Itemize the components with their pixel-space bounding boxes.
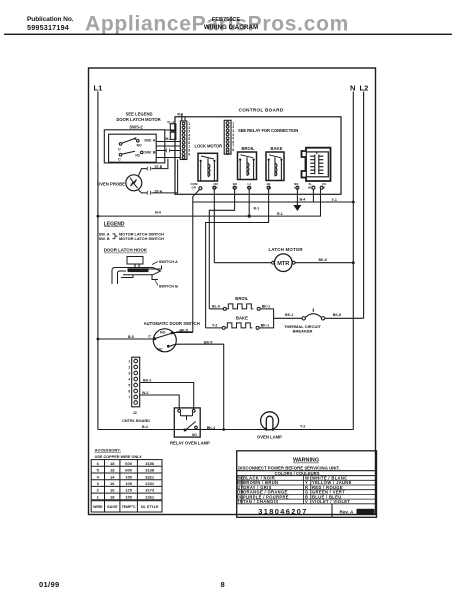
svg-text:DOOR LATCH MOTOR: DOOR LATCH MOTOR [116, 117, 160, 122]
wire door switch NO up-right [173, 332, 193, 334]
wire bottom bus L1 to N [98, 429, 353, 431]
svg-text:18: 18 [110, 461, 115, 466]
junction N latch motor [352, 261, 355, 264]
wire gauge table [91, 460, 162, 512]
svg-text:NL STYLE: NL STYLE [141, 505, 159, 509]
svg-text:Y-2: Y-2 [300, 425, 305, 429]
svg-text:ST-B: ST-B [155, 165, 163, 169]
wire latch motor right to N [295, 262, 353, 264]
svg-text:150: 150 [125, 474, 132, 479]
svg-text:BK-8: BK-8 [333, 313, 341, 317]
wire horizontal to N at 202 [193, 201, 353, 203]
svg-text:B-5: B-5 [128, 335, 134, 339]
svg-text:LATCH MOTOR: LATCH MOTOR [269, 247, 304, 252]
svg-text:AUTOMATIC DOOR SWITCH: AUTOMATIC DOOR SWITCH [144, 321, 200, 326]
junction N wire [352, 201, 355, 204]
svg-text:7: 7 [128, 395, 130, 399]
connector P2 strip [224, 120, 234, 154]
svg-text:TAN / CHAMOIS: TAN / CHAMOIS [243, 499, 278, 504]
svg-text:LEGEND: LEGEND [104, 222, 125, 228]
board terminal labels row [191, 182, 326, 190]
svg-text:3: 3 [128, 371, 130, 375]
svg-text:16: 16 [110, 488, 115, 493]
svg-text:3173: 3173 [145, 488, 155, 493]
svg-text:OVEN LAMP: OVEN LAMP [257, 435, 282, 440]
svg-text:BROIL: BROIL [242, 146, 255, 151]
wire broil BK to broil element [209, 189, 234, 309]
svg-text:MOTOR LATCH SWITCH: MOTOR LATCH SWITCH [119, 236, 164, 241]
wire L1 to door switch [98, 338, 153, 340]
svg-text:OR: OR [192, 186, 197, 190]
svg-text:M-1: M-1 [166, 137, 172, 141]
svg-text:CONTROL BOARD: CONTROL BOARD [239, 108, 284, 113]
svg-text:BAKE: BAKE [271, 146, 283, 151]
wire L1 bus horizontal [98, 189, 321, 216]
wire switch box bottom to connector [156, 157, 180, 159]
header model text [204, 17, 258, 31]
svg-text:01/99: 01/99 [39, 580, 60, 589]
terminal block pair left of P1 [170, 124, 176, 140]
svg-text:CNTRL BOARD: CNTRL BOARD [122, 419, 150, 423]
wire J2 pin7 to lamp relay [140, 395, 180, 410]
wire switch B to connector [156, 150, 180, 152]
leader switch A [152, 262, 158, 265]
svg-text:BAKE: BAKE [236, 315, 248, 320]
svg-text:BK-1: BK-1 [285, 313, 293, 317]
svg-text:OVEN PROBE: OVEN PROBE [97, 182, 125, 187]
svg-text:BK-5: BK-5 [180, 329, 188, 333]
svg-text:VIOLET / VIOLET: VIOLET / VIOLET [312, 499, 350, 504]
svg-text:4: 4 [97, 474, 100, 479]
svg-text:2: 2 [97, 488, 100, 493]
svg-text:BK-1: BK-1 [262, 304, 270, 308]
svg-text:C: C [118, 148, 121, 152]
junction dot R-1 [248, 215, 251, 218]
wire L2 vertical [363, 92, 365, 319]
svg-text:2261: 2261 [145, 494, 155, 499]
svg-text:18: 18 [110, 468, 115, 473]
broil element [212, 296, 270, 310]
svg-text:14: 14 [110, 474, 115, 479]
wire lock NO down to latch motor [213, 189, 215, 263]
junction lamp bus [222, 428, 225, 431]
svg-text:SEE RELAY FOR CONNECTION: SEE RELAY FOR CONNECTION [238, 128, 298, 133]
svg-text:Y-1: Y-1 [332, 198, 337, 202]
svg-text:Rev. A: Rev. A [340, 509, 354, 514]
svg-text:B-4: B-4 [300, 198, 306, 202]
svg-text:V: V [305, 499, 308, 504]
accessory note [95, 448, 143, 459]
terminal symbol probe bottom [147, 191, 151, 195]
terminal symbol on switch wire [166, 149, 170, 153]
svg-text:150: 150 [125, 494, 132, 499]
svg-text:4: 4 [128, 377, 130, 381]
svg-text:L2: L2 [360, 84, 369, 93]
svg-text:2231: 2231 [145, 481, 155, 486]
svg-text:RELAY OVEN LAMP: RELAY OVEN LAMP [170, 441, 210, 446]
svg-text:105: 105 [125, 481, 132, 486]
oven probe [97, 175, 142, 191]
wire probe top lead [139, 159, 168, 176]
switch A [118, 137, 156, 152]
svg-text:DOOR LATCH HOOK: DOOR LATCH HOOK [104, 248, 148, 253]
wire probe bottom lead [139, 160, 178, 193]
svg-text:FEB756CE: FEB756CE [212, 17, 241, 23]
svg-text:DISCONNECT POWER BEFORE SERVIC: DISCONNECT POWER BEFORE SERVICING UNIT. [238, 465, 340, 470]
svg-text:318046207: 318046207 [258, 507, 308, 516]
svg-text:N: N [350, 84, 355, 93]
svg-text:600: 600 [125, 461, 132, 466]
svg-text:6: 6 [128, 389, 130, 393]
svg-text:SW. B: SW. B [144, 149, 155, 154]
relay BROIL [238, 146, 257, 180]
wire switch A to connector [156, 141, 180, 143]
latch motor MTR [269, 247, 304, 272]
header publication number [27, 16, 74, 32]
switch SWS-2 inner box [109, 134, 157, 162]
svg-text:BK-5: BK-5 [204, 340, 212, 344]
svg-text:8: 8 [221, 580, 225, 589]
header rule [4, 34, 452, 35]
wire lock COM to door switch [176, 190, 199, 332]
control board box [175, 117, 341, 195]
junction L1 bus [97, 215, 100, 218]
wire N vertical [352, 92, 354, 430]
svg-text:BK-6: BK-6 [319, 258, 327, 262]
wire broil element left stub [209, 308, 223, 310]
svg-text:16: 16 [110, 481, 115, 486]
svg-text:B-4: B-4 [142, 425, 148, 429]
ground [293, 205, 301, 211]
svg-text:USE COPPER WIRE ONLY.: USE COPPER WIRE ONLY. [95, 455, 143, 459]
leader switch B [155, 280, 158, 286]
wire connector pin stub above board [182, 114, 185, 122]
junction dot lamp relay common [184, 429, 187, 432]
svg-text:BK-2: BK-2 [143, 378, 151, 382]
svg-text:SWITCH A: SWITCH A [159, 259, 178, 264]
svg-text:8: 8 [232, 148, 234, 152]
svg-text:R-1: R-1 [277, 212, 283, 216]
svg-text:MTR: MTR [277, 261, 289, 267]
legend title [99, 222, 164, 253]
relay DLB double line break [302, 148, 331, 181]
svg-text:BK-1: BK-1 [261, 323, 269, 327]
wire L1 vertical [97, 92, 99, 430]
svg-text:SW. B: SW. B [99, 236, 110, 241]
svg-text:NO: NO [192, 433, 197, 437]
svg-text:WARNING: WARNING [293, 458, 319, 464]
svg-text:ST-A: ST-A [155, 189, 163, 193]
relay LOCK MOTOR [195, 144, 223, 182]
svg-text:SWS-2: SWS-2 [129, 125, 143, 130]
terminal symbol probe top [147, 167, 151, 171]
wire door switch NC to oven lamp bus [170, 344, 224, 429]
svg-text:J2: J2 [133, 411, 137, 415]
connector J2 strip [122, 357, 150, 423]
svg-text:3321: 3321 [145, 474, 155, 479]
svg-text:GAGE: GAGE [107, 505, 118, 509]
switch B [118, 149, 156, 161]
svg-text:125: 125 [125, 488, 132, 493]
svg-text:ACCESSORY:: ACCESSORY: [95, 448, 121, 453]
svg-text:C: C [148, 334, 151, 338]
wire elements right edge [259, 309, 302, 328]
wire switch box to connector top [165, 123, 175, 131]
svg-text:W-2: W-2 [142, 391, 149, 395]
svg-text:NO: NO [137, 144, 142, 148]
svg-text:BREAKER: BREAKER [293, 329, 313, 334]
wire J2 pin5 to lamp relay [140, 383, 194, 410]
svg-text:Y-2: Y-2 [212, 323, 217, 327]
svg-text:1: 1 [128, 359, 130, 363]
relay oven lamp box [174, 408, 200, 437]
svg-text:9: 9 [188, 152, 190, 156]
wire bake BK to bake element [206, 189, 269, 328]
wire NO terminal to chassis ground [296, 189, 298, 205]
relay BAKE [266, 146, 284, 181]
schematic outer frame [89, 68, 376, 515]
svg-text:3138: 3138 [145, 468, 155, 473]
svg-text:R-1: R-1 [254, 206, 260, 210]
svg-text:C: C [118, 157, 121, 161]
svg-text:SEE LEGEND: SEE LEGEND [126, 112, 153, 117]
svg-text:6: 6 [97, 461, 100, 466]
svg-text:3: 3 [97, 481, 100, 486]
svg-text:WIRE: WIRE [93, 505, 103, 509]
svg-text:L1: L1 [94, 84, 103, 93]
connector P1 strip [180, 121, 190, 160]
warning table [237, 451, 377, 518]
svg-text:5: 5 [128, 383, 130, 387]
svg-text:SWITCH B: SWITCH B [159, 284, 178, 289]
switch SWS-2 outer box [104, 130, 165, 163]
svg-text:5: 5 [97, 468, 100, 473]
svg-text:BROIL: BROIL [235, 296, 248, 301]
svg-text:SW. A: SW. A [144, 138, 155, 143]
wire breaker to L2 [325, 317, 364, 319]
door latch hook drawing [112, 257, 162, 285]
svg-text:NC: NC [157, 347, 163, 351]
svg-text:LOCK MOTOR: LOCK MOTOR [195, 144, 223, 149]
wire bake element left stub [206, 327, 223, 329]
wire stub box to connector mid [156, 145, 180, 147]
svg-text:WIRING DIAGRAM: WIRING DIAGRAM [204, 24, 258, 31]
junction L1 door switch [97, 338, 100, 341]
svg-text:TEMP°C: TEMP°C [122, 505, 136, 509]
board terminal circles [199, 186, 323, 190]
wire latch motor left [214, 262, 271, 264]
svg-text:B-6: B-6 [155, 211, 161, 215]
thermal circuit breaker [284, 308, 325, 333]
door latch motor switch legend note [116, 112, 160, 130]
svg-text:NO: NO [160, 330, 166, 334]
svg-text:600: 600 [125, 468, 132, 473]
svg-text:1: 1 [97, 494, 100, 499]
svg-text:BK-4: BK-4 [207, 426, 215, 430]
oven lamp [257, 412, 282, 440]
svg-text:3156: 3156 [145, 461, 155, 466]
automatic door switch [144, 321, 200, 352]
svg-text:18: 18 [110, 494, 115, 499]
wire broil L1 to L1 bus [248, 189, 250, 216]
svg-text:Publication No.: Publication No. [27, 16, 74, 23]
bake element [212, 315, 269, 329]
svg-text:2: 2 [128, 365, 130, 369]
svg-text:NC: NC [135, 153, 140, 157]
svg-text:5995317194: 5995317194 [27, 23, 69, 32]
svg-text:BL-6: BL-6 [212, 304, 220, 308]
wire 2L terminal to N [312, 189, 314, 202]
